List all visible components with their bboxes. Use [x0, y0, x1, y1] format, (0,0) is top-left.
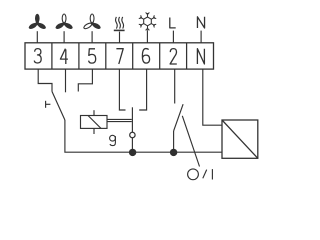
terminal divider 6|2: [159, 43, 161, 69]
wire terminal 7 to heat contact: [119, 69, 125, 110]
temperature symbol theta: [110, 135, 116, 145]
fan icon speed 2 (top blade outlined): [55, 14, 74, 30]
node L label: [170, 18, 176, 28]
terminal divider 5|7: [105, 43, 107, 69]
heat/cool changeover pole wire: [131, 107, 133, 132]
cooling icon (snowflake): [139, 12, 156, 30]
wire fan3 icon to terminal 5: [91, 31, 93, 43]
wire on/off switch to junction: [173, 131, 175, 152]
fan selector switch blade: [52, 92, 65, 121]
on/off indicator I: [211, 169, 213, 179]
wire terminal 4 to fan contact 2: [65, 69, 67, 92]
on/off switch leader line: [182, 116, 199, 167]
wire fan1 icon to terminal 3: [36, 31, 38, 43]
terminal 5 label: [89, 49, 96, 63]
thermal contact bobble: [130, 132, 135, 137]
terminal divider 7|6: [132, 43, 134, 69]
fan selector actuator symbol: [45, 101, 47, 108]
terminal divider 2|N: [186, 43, 188, 69]
wire bobble to junction: [131, 138, 133, 153]
on/off switch blade: [174, 104, 184, 131]
terminal divider 3|4: [51, 43, 53, 69]
terminal 6 label: [142, 49, 149, 64]
terminal 7 label: [116, 49, 123, 64]
terminal 2 label: [170, 49, 177, 64]
terminal divider 4|5: [78, 43, 80, 69]
terminal strip outer box: [25, 43, 214, 69]
wire terminal 3 to fan contact 1: [38, 69, 52, 91]
node N label: [197, 17, 204, 28]
junction node A: [129, 149, 136, 156]
fan icon speed 3 (all blades filled): [28, 14, 47, 31]
on/off indicator 0: [188, 169, 199, 180]
terminal 4 label: [60, 49, 68, 64]
on/off indicator slash: [203, 170, 207, 179]
wire L label to terminal 2: [172, 31, 174, 43]
terminal N label: [197, 49, 204, 64]
wire terminal 5 to fan contact 3: [78, 69, 92, 91]
wire fan selector common to bus: [65, 120, 133, 152]
terminal 3 label: [34, 49, 41, 63]
wire terminal 6 to cool contact: [139, 69, 146, 110]
fan icon speed 1 (one blade filled): [83, 14, 102, 30]
wire snowflake icon to terminal 6: [146, 30, 148, 43]
wire common bus: [133, 151, 222, 153]
wire terminal N to controller: [203, 69, 222, 125]
wire N label to terminal N: [200, 31, 202, 43]
wire fan2 icon to terminal 4: [63, 31, 65, 43]
wire terminal 2 to on/off switch: [174, 69, 176, 103]
controller box U1: [222, 120, 258, 158]
thermostat actuator box: [81, 116, 108, 129]
heating icon (waves over bar): [114, 17, 125, 31]
wire heat icon to terminal 7: [119, 32, 121, 43]
junction node B: [170, 149, 177, 156]
mechanical linkage (double line): [107, 118, 132, 120]
